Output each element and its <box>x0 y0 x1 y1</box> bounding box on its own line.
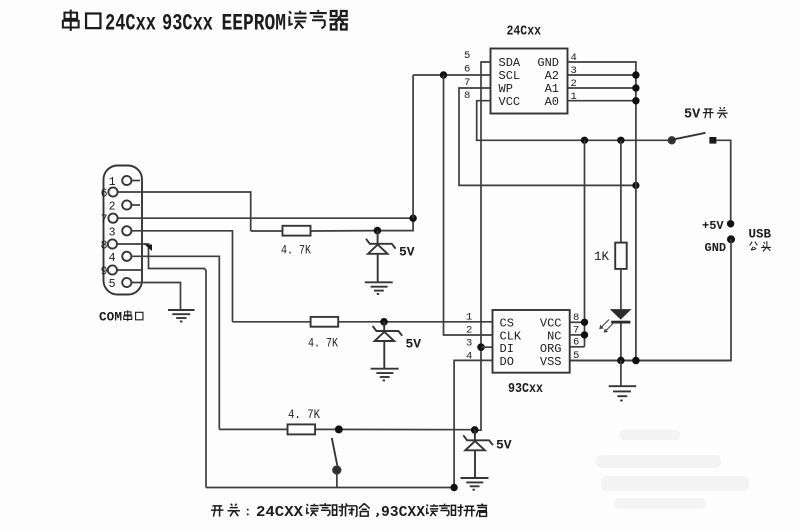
svg-text:5: 5 <box>109 278 116 291</box>
faint watermark <box>596 430 749 509</box>
switch SW2 lever <box>332 438 338 466</box>
terminal +5V <box>727 220 734 227</box>
svg-text:8: 8 <box>101 240 108 253</box>
svg-text:24Cxx: 24Cxx <box>105 11 156 37</box>
wire pin8 elbow down <box>117 244 206 488</box>
node junction zener D2 top <box>380 318 388 326</box>
wire bottom line <box>206 487 454 489</box>
svg-text:6: 6 <box>464 64 470 76</box>
node junction WP line to bus <box>632 182 639 189</box>
svg-text:4. 7K: 4. 7K <box>308 337 338 351</box>
wire USB GND down to VSS line <box>570 239 731 360</box>
svg-text:VCC: VCC <box>540 316 562 330</box>
LED D5 <box>610 309 632 360</box>
svg-text:5: 5 <box>464 50 470 62</box>
label USB 公头 <box>749 227 772 251</box>
svg-text:A1: A1 <box>545 82 559 96</box>
resistor R1 4.7K <box>251 226 378 236</box>
wire 93C VCC branch vertical <box>584 140 586 346</box>
svg-text:2: 2 <box>466 324 472 336</box>
ground below VSS line <box>609 361 637 401</box>
svg-text:9: 9 <box>101 266 108 279</box>
ground for D3 <box>461 478 489 490</box>
node junction A1/bus <box>632 84 639 91</box>
svg-text:5V: 5V <box>684 108 701 123</box>
wire pin5 to ground <box>131 283 180 310</box>
pin 6 <box>101 187 118 200</box>
node junction SCL/CLK <box>440 71 447 78</box>
wire U2 NC pin to branch <box>570 334 585 336</box>
node junction pin7/SCL/R1 <box>409 215 416 222</box>
svg-text:93Cxx: 93Cxx <box>162 11 213 37</box>
node junction zener D3 top <box>471 426 479 434</box>
svg-text:A0: A0 <box>545 95 559 109</box>
pin 7 <box>101 214 118 227</box>
pin 3 <box>109 226 132 239</box>
wire U1 A2 pin <box>568 74 636 76</box>
connector J1 DB9 COM port outline <box>104 166 143 295</box>
ground for pin 5 <box>168 310 195 322</box>
svg-text:VCC: VCC <box>499 95 521 109</box>
wire DO elbow down <box>454 360 492 487</box>
node junction VCC/branch <box>581 319 588 326</box>
wire pin4 down to R3 row <box>131 256 219 429</box>
svg-text:GND: GND <box>537 56 559 70</box>
wire 1K branch vertical upper <box>620 140 622 242</box>
ground for D2 <box>371 369 399 381</box>
wire R1 up to pin7 node <box>377 218 413 230</box>
terminal GND <box>727 235 735 243</box>
label 5V开关 <box>684 107 728 122</box>
svg-text:93Cxx: 93Cxx <box>508 381 543 397</box>
wire VCC elbow to 5V rail <box>477 101 671 141</box>
caption: 开关：24CXX读写时闭合，93CXX读写时开启 <box>211 503 487 521</box>
wire SCL line <box>413 74 490 76</box>
node junction 5V rail / 93C VCC branch <box>581 137 588 144</box>
zener diode D2 5V <box>373 322 403 368</box>
pin 4 <box>109 252 132 265</box>
svg-text:3: 3 <box>109 227 116 240</box>
svg-text:DO: DO <box>500 355 514 369</box>
svg-text:DI: DI <box>500 342 514 356</box>
title text: 串口24Cxx 93Cxx EEPROM读写器 <box>63 9 348 36</box>
resistor R4 1K <box>615 243 627 269</box>
svg-text:1K: 1K <box>594 250 610 264</box>
zener diode D1 5V <box>366 231 396 282</box>
wire pin3 down to CS row <box>131 231 232 322</box>
zener diode D3 5V <box>463 430 493 477</box>
svg-text:CS: CS <box>500 316 514 330</box>
svg-text:5V: 5V <box>399 245 415 260</box>
svg-text:A2: A2 <box>545 69 559 83</box>
switch SW1 5V <box>669 133 731 221</box>
wire U1 GND pin to bus top <box>568 62 636 361</box>
svg-text:8: 8 <box>464 90 470 102</box>
IC U2 93Cxx box <box>493 310 570 373</box>
wire U1 A1 pin <box>568 87 636 89</box>
wire CLK vertical <box>444 75 493 335</box>
svg-text:3: 3 <box>466 337 472 349</box>
svg-text:USB: USB <box>749 227 772 241</box>
pin 8 <box>101 239 117 252</box>
corner mark on pin8 wire <box>145 245 153 252</box>
wire U2 VCC pin to branch <box>570 321 585 323</box>
node junction VSS/LED <box>617 357 625 365</box>
svg-text:4. 7K: 4. 7K <box>281 244 311 258</box>
resistor R3 4.7K <box>219 424 474 434</box>
node junction NC/branch <box>581 331 588 338</box>
pin 1 <box>109 176 140 189</box>
pin 5 <box>109 278 132 291</box>
svg-text:1: 1 <box>466 311 472 323</box>
wire WP elbow to bus <box>459 88 636 185</box>
pin 9 <box>101 265 142 278</box>
svg-text:4. 7K: 4. 7K <box>288 408 320 422</box>
label COM串口 <box>99 310 143 325</box>
wire pin7 to node SCL junction <box>118 217 414 219</box>
wire pin6 to R1 line <box>118 192 251 231</box>
wire 1K to LED <box>620 269 622 309</box>
wire SW2 to bottom line <box>336 474 338 488</box>
ground for D1 <box>365 282 393 294</box>
svg-text:GND: GND <box>705 241 727 255</box>
svg-text:5V: 5V <box>406 337 422 352</box>
svg-text:6: 6 <box>101 188 108 201</box>
svg-text:VSS: VSS <box>540 355 562 369</box>
wire U2 ORG pin elbow up to branch <box>570 346 585 348</box>
svg-text:24Cxx: 24Cxx <box>507 24 542 40</box>
wire U1 A0 pin <box>568 100 636 102</box>
node junction VSS/bus <box>632 357 640 365</box>
svg-text:93CXX: 93CXX <box>381 504 425 521</box>
node junction bottom line / DO <box>450 484 457 491</box>
node junction switch SW2 top <box>335 425 343 433</box>
node junction A2/bus <box>632 71 639 78</box>
svg-text:ORG: ORG <box>540 342 562 356</box>
svg-text:COM: COM <box>99 310 122 325</box>
switch SW2 contact <box>333 466 340 473</box>
pin 2 <box>109 200 140 213</box>
svg-text:24CXX: 24CXX <box>256 504 303 521</box>
wire SCL corner down to pin7 node <box>412 75 414 218</box>
svg-text:EEPROM: EEPROM <box>222 11 287 37</box>
svg-text:WP: WP <box>499 82 513 96</box>
resistor R2 4.7K on CS line <box>233 317 493 327</box>
IC U1 24Cxx box <box>491 49 568 114</box>
node junction zener D1 top <box>374 227 382 235</box>
node junction 5V rail / 1K branch <box>617 137 624 144</box>
svg-text:4: 4 <box>109 252 116 265</box>
svg-text:+5V: +5V <box>702 219 724 233</box>
LED emission arrows <box>599 320 613 333</box>
svg-text:7: 7 <box>101 214 108 227</box>
svg-text:2: 2 <box>109 201 116 214</box>
svg-text:5V: 5V <box>496 438 512 453</box>
wire SDA vertical down to DI node <box>475 62 491 430</box>
svg-text:SCL: SCL <box>499 69 521 83</box>
svg-text:SDA: SDA <box>499 56 521 70</box>
node junction A0/bus <box>632 97 639 104</box>
wire U2 VSS pin / ground line <box>570 360 731 362</box>
node junction DI/SDA <box>477 343 485 351</box>
wire DI stub <box>481 346 493 348</box>
